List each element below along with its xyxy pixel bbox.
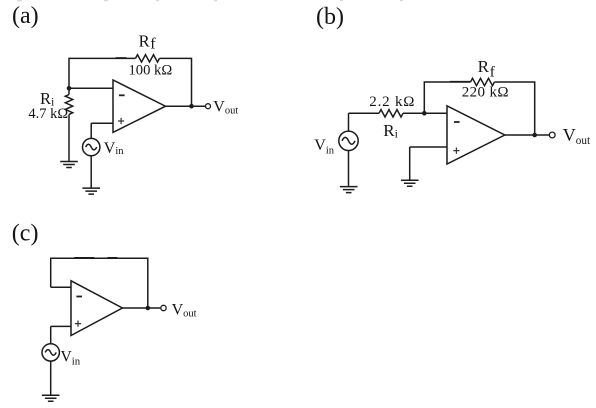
svg-text:Vin: Vin xyxy=(314,137,334,157)
svg-text:Vin: Vin xyxy=(104,140,124,157)
svg-text:220 kΩ: 220 kΩ xyxy=(462,84,509,100)
svg-text:(c): (c) xyxy=(12,220,39,246)
svg-text:100 kΩ: 100 kΩ xyxy=(129,62,173,78)
svg-text:Vout: Vout xyxy=(172,302,197,320)
svg-text:Ri: Ri xyxy=(383,121,398,141)
svg-text:Vout: Vout xyxy=(213,99,238,117)
svg-text:4.7 kΩ: 4.7 kΩ xyxy=(28,106,68,122)
svg-text:Rf: Rf xyxy=(478,57,495,81)
svg-text:(a): (a) xyxy=(12,3,39,29)
svg-text:Rf: Rf xyxy=(139,32,157,53)
svg-text:(b): (b) xyxy=(316,4,344,30)
svg-text:Vout: Vout xyxy=(563,125,591,147)
svg-text:Vin: Vin xyxy=(61,348,81,367)
svg-text:2.2 kΩ: 2.2 kΩ xyxy=(369,94,415,110)
